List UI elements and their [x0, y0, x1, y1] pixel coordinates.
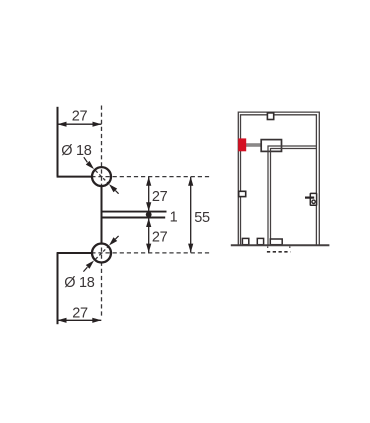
diameter arrow top NW	[86, 161, 94, 169]
transom rail right	[268, 146, 317, 149]
diameter arrow tail bottom NE	[115, 236, 118, 239]
svg-text:27: 27	[152, 189, 168, 205]
floor tick left	[267, 246, 269, 248]
diameter arrow tail top SE	[115, 191, 118, 194]
left frame fitting	[239, 191, 246, 196]
floor fitting middle	[257, 238, 263, 244]
diameter arrow bottom SW	[86, 261, 94, 269]
diameter diagonal dashed bottom circle	[96, 247, 108, 259]
hinge knuckle circle bottom	[92, 244, 111, 263]
diameter diagonal dashed top circle	[96, 171, 108, 183]
profile stem between circles	[101, 187, 103, 244]
overpanel patch box	[261, 140, 281, 152]
door leaf edge	[268, 146, 271, 245]
lock cylinder	[312, 200, 315, 203]
profile wall top horizontal	[57, 176, 92, 178]
top tab fitting	[267, 113, 273, 120]
door swing dashed line	[267, 251, 291, 253]
centerline horizontal dashed top	[91, 176, 211, 178]
floor tick right	[289, 246, 291, 248]
floor fitting left	[242, 238, 248, 244]
node dot on glass line	[146, 212, 152, 218]
glass leaf line top	[101, 211, 167, 213]
red product marker	[238, 138, 246, 151]
diameter leader top	[84, 157, 88, 162]
diameter arrow top SE	[109, 184, 117, 192]
dimension 27 right-upper arrows	[146, 177, 151, 212]
dimension 27 bottom arrows	[58, 318, 102, 323]
floor line	[231, 244, 330, 246]
diameter leader bottom	[83, 267, 87, 271]
sidelight rail upper left	[242, 144, 262, 146]
centerline horizontal dashed bottom	[91, 252, 211, 254]
dimension 27 right-upper line	[148, 177, 150, 212]
dimension 27 right-lower arrows	[146, 218, 151, 253]
dimension 55 arrows	[188, 177, 193, 253]
door frame outer	[238, 112, 319, 245]
door frame inner	[241, 115, 317, 246]
dimension 27 top-left arrows	[58, 122, 102, 127]
dimension 27 top-left line	[58, 123, 102, 125]
svg-text:Ø 18: Ø 18	[64, 275, 94, 291]
diameter arrow bottom NE	[109, 237, 117, 245]
svg-text:1: 1	[170, 209, 178, 225]
dimension 27 bottom line	[58, 319, 102, 321]
svg-text:27: 27	[72, 306, 88, 322]
profile wall bottom horizontal	[57, 252, 92, 254]
lock body	[310, 193, 316, 205]
profile wall top vertical	[57, 107, 59, 177]
glass leaf line bottom	[101, 217, 165, 219]
svg-text:55: 55	[194, 210, 210, 226]
door bottom rail fitting	[270, 239, 282, 245]
dimension 55 line	[190, 177, 192, 253]
profile wall bottom vertical	[57, 253, 59, 324]
svg-text:27: 27	[72, 109, 88, 125]
centerline vertical dashed	[101, 106, 103, 318]
svg-text:Ø 18: Ø 18	[61, 143, 91, 159]
dimension 27 right-lower line	[148, 218, 150, 253]
lock lever line	[305, 197, 314, 199]
hinge knuckle circle top	[92, 167, 111, 186]
svg-text:27: 27	[152, 230, 168, 246]
